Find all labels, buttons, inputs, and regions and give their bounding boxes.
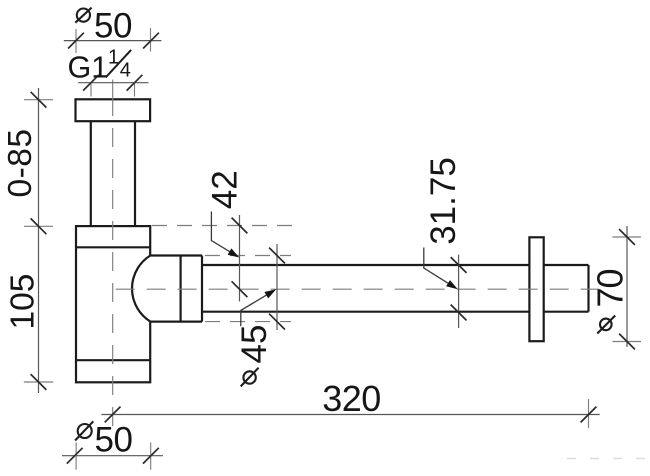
node dimension G1 1/4 — [78, 82, 148, 84]
wire vertical centerline dashed — [112, 128, 114, 428]
node diameter symbol bottom — [78, 424, 92, 438]
svg-text:4: 4 — [120, 60, 131, 82]
wire horizontal pipe top edge — [202, 264, 529, 266]
wire dashed extension at nut top level — [205, 255, 291, 257]
wire dashed extension at nut bottom level — [205, 321, 291, 323]
wire horizontal pipe bottom edge — [202, 311, 529, 313]
wire pipe stub top edge right of flange — [544, 264, 589, 266]
node diameter symbol 45 — [243, 371, 255, 383]
node dimension 0-85 and 105 left — [38, 88, 40, 393]
wire bottle lower seam — [76, 359, 150, 361]
svg-text:50: 50 — [95, 420, 133, 459]
wire leader for 31.75 — [424, 248, 453, 287]
wire union nut left joint — [180, 256, 182, 322]
node top flange of bottle trap — [76, 99, 151, 121]
node arrowhead 45 — [264, 289, 276, 298]
svg-text:70: 70 — [590, 269, 631, 307]
wire vertical inlet pipe left edge — [90, 122, 92, 227]
node wall flange — [529, 237, 543, 341]
wire horizontal centerline dashed — [116, 288, 599, 290]
wire union nut right face — [201, 256, 203, 322]
wire pipe end face — [587, 265, 589, 312]
node arrowhead 31.75 — [446, 280, 458, 289]
svg-text:G1: G1 — [68, 50, 109, 84]
node dimension diameter 50 bottom — [62, 455, 163, 457]
svg-text:50: 50 — [94, 7, 132, 46]
node diameter symbol top — [77, 9, 90, 22]
svg-text:31.75: 31.75 — [424, 157, 463, 245]
node dimension 42 — [239, 215, 241, 301]
wire leader for 45 — [241, 292, 272, 326]
node dimension 31.75 — [458, 255, 460, 328]
wire bottle upper seam — [76, 246, 150, 248]
wire vertical centerline solid segment — [112, 80, 114, 116]
node bottle body — [76, 226, 150, 382]
svg-text:0-85: 0-85 — [2, 128, 39, 197]
wire faint dashes bottom right — [567, 458, 650, 460]
node dimension 320 — [101, 414, 599, 416]
svg-text:320: 320 — [322, 378, 381, 419]
node diameter symbol 70 — [600, 319, 612, 331]
svg-text:42: 42 — [206, 170, 245, 209]
wire pipe stub bottom edge right of flange — [544, 311, 589, 313]
node elbow dome — [132, 256, 202, 322]
svg-text:105: 105 — [5, 274, 42, 330]
node dimension diameter 50 top — [75, 29, 77, 53]
node dimension diameter 70 — [626, 226, 628, 347]
wire vertical inlet pipe right edge — [134, 122, 136, 227]
node arrowhead 42 — [228, 248, 240, 257]
wire leader for 42 — [211, 212, 234, 255]
wire dashed reference line at level of bottle top — [152, 225, 298, 227]
node dimension diameter 45 — [276, 244, 278, 330]
svg-text:45: 45 — [235, 325, 274, 364]
